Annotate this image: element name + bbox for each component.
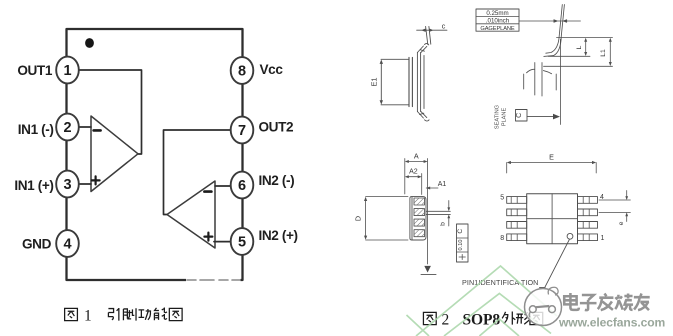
dimension L — [585, 40, 587, 55]
svg-text:.010inch: .010inch — [486, 17, 510, 24]
svg-text:1: 1 — [63, 63, 71, 79]
svg-text:6: 6 — [238, 178, 246, 194]
svg-text:7: 7 — [238, 123, 246, 139]
wire: pin2 to U1A inverting input — [79, 126, 92, 128]
svg-text:A: A — [414, 151, 419, 160]
op-amp U1A — [91, 116, 138, 192]
pin1 identification leader — [540, 240, 570, 288]
pin 4 — [56, 230, 79, 257]
pin 2 — [56, 114, 79, 141]
op-amp U1A plus input symbol — [92, 176, 100, 184]
lead frame lines (end view) — [417, 53, 424, 112]
datum C box — [516, 110, 528, 122]
right pin row 2 — [578, 209, 598, 216]
dimension D — [365, 199, 367, 238]
dimension E1 extension lines — [381, 59, 409, 105]
svg-text:IN1 (-): IN1 (-) — [18, 122, 54, 137]
wire: pin7 to U1B output — [164, 130, 232, 215]
svg-text:4: 4 — [63, 237, 71, 253]
watermark stamp circle — [525, 289, 562, 326]
svg-text:SEATING: SEATING — [495, 105, 501, 129]
seating datum arrow bottom — [424, 266, 431, 273]
pin 1 — [56, 57, 79, 84]
package body (end view) — [409, 57, 412, 106]
dimension E — [509, 162, 595, 164]
svg-text:GAGEPLANE: GAGEPLANE — [480, 26, 514, 32]
svg-text:IN1 (+): IN1 (+) — [14, 178, 53, 193]
lead (hatched) row 1 — [414, 198, 425, 205]
svg-text:OUT1: OUT1 — [17, 63, 52, 78]
watermark: green zigzag lines — [407, 266, 558, 336]
svg-text:SOP8: SOP8 — [463, 312, 501, 329]
svg-text:8: 8 — [238, 64, 246, 80]
lead (hatched) row 4 — [414, 230, 425, 237]
svg-text:1: 1 — [84, 308, 92, 325]
dimension A2 — [407, 176, 420, 178]
svg-text:Vcc: Vcc — [260, 62, 284, 77]
dimension A — [407, 161, 426, 163]
dimension E1 — [380, 62, 382, 103]
left pin row 2 — [507, 209, 527, 216]
dimension e extension lines — [599, 200, 630, 212]
svg-text:3: 3 — [63, 177, 71, 193]
svg-text:8: 8 — [500, 235, 504, 242]
op-amp U1B minus input symbol — [204, 190, 211, 193]
bent lead bottom — [417, 111, 429, 121]
svg-text:0.10: 0.10 — [458, 240, 464, 251]
svg-text:1: 1 — [601, 235, 605, 242]
svg-text:C: C — [516, 113, 523, 118]
dimension D extension lines — [366, 197, 408, 240]
pin-1 index dot — [85, 38, 94, 48]
svg-text:A1: A1 — [438, 181, 447, 188]
svg-text:5: 5 — [500, 195, 504, 202]
wire: pin5 to U1B non-inverting input — [214, 241, 231, 243]
leader from gage plane box — [519, 20, 581, 23]
package body (side cross-section) — [412, 197, 426, 240]
pin 3 — [56, 171, 79, 198]
protruding lead — [426, 211, 450, 214]
op-amp U1B — [167, 181, 215, 248]
svg-text:e: e — [618, 221, 625, 225]
top reference line — [557, 37, 613, 39]
IC body outline U1 — [67, 29, 243, 280]
pin 6 — [231, 172, 254, 199]
stamp phone icon — [529, 287, 558, 317]
dimension c leader — [417, 29, 447, 31]
lead (hatched) row 3 — [414, 219, 425, 226]
wire: bottom border smudged segment — [186, 277, 241, 284]
left pin row 3 — [507, 222, 527, 229]
svg-text:5: 5 — [238, 235, 246, 251]
gage plane line — [548, 55, 590, 57]
op-amp U1A minus input symbol — [94, 129, 101, 132]
wire: pin1 to U1A output — [79, 70, 142, 154]
svg-text:A2: A2 — [409, 169, 418, 176]
right pin row 1 — [578, 197, 598, 204]
dimension b — [448, 201, 450, 227]
caption: fig 2 SOP8 wai-xing-tu — [423, 311, 542, 328]
feature control frame — [457, 224, 469, 262]
svg-text:L: L — [576, 45, 583, 49]
svg-text:2: 2 — [63, 120, 71, 136]
svg-text:L1: L1 — [600, 49, 607, 57]
pin 1 identifier circle — [567, 233, 573, 239]
svg-text:D: D — [353, 216, 362, 221]
watermark logo text dian-zi-fa-shao-you — [564, 293, 649, 310]
geometric symbol in frame — [459, 254, 465, 259]
dimension A1 — [426, 187, 438, 189]
right pin row 3 — [578, 222, 598, 229]
svg-text:GND: GND — [22, 236, 52, 251]
gage plane note box — [476, 9, 519, 31]
datum leader with solid arrow — [527, 116, 554, 118]
wire: pin3 to U1A non-inverting input — [79, 183, 92, 185]
slanted lead in detail — [544, 5, 565, 57]
extension lines for A dims — [405, 159, 428, 265]
caption: fig 1 yin-jiao-gong-neng-tu — [65, 307, 182, 324]
svg-text:C: C — [457, 229, 464, 234]
svg-text:0.25mm: 0.25mm — [486, 10, 508, 17]
wire: pin6 to U1B inverting input — [215, 185, 231, 187]
dimension E extension lines — [507, 163, 597, 174]
pin 5 — [231, 228, 254, 255]
svg-text:PLANE: PLANE — [502, 108, 508, 127]
package body (top view) — [527, 194, 578, 244]
svg-text:c: c — [442, 22, 446, 31]
seating plane centerline — [559, 39, 561, 125]
left pin row 1 — [507, 197, 527, 204]
dimension L1 — [609, 40, 611, 65]
phantom lead profile — [524, 63, 557, 97]
lead (hatched) row 2 — [414, 209, 425, 216]
body mold lines — [527, 194, 578, 244]
svg-text:OUT2: OUT2 — [259, 120, 294, 135]
left pin row 4 — [507, 234, 527, 241]
svg-text:PIN1IDENTIFICA TION: PIN1IDENTIFICA TION — [462, 278, 538, 287]
op-amp U1B plus input symbol — [204, 233, 212, 241]
pin 7 — [231, 117, 254, 144]
svg-text:E1: E1 — [370, 77, 379, 86]
svg-text:E: E — [549, 152, 554, 161]
svg-text:IN2 (-): IN2 (-) — [259, 173, 295, 188]
right pin row 4 — [578, 234, 598, 241]
svg-text:www.elecfans.com: www.elecfans.com — [558, 316, 665, 330]
svg-text:b: b — [440, 222, 447, 226]
pin 8 — [231, 57, 254, 84]
seating plane line — [544, 65, 613, 67]
dimension e — [626, 191, 628, 222]
svg-text:IN2 (+): IN2 (+) — [259, 228, 298, 243]
bent lead top — [417, 43, 428, 52]
lead cross-section for c — [426, 27, 431, 45]
